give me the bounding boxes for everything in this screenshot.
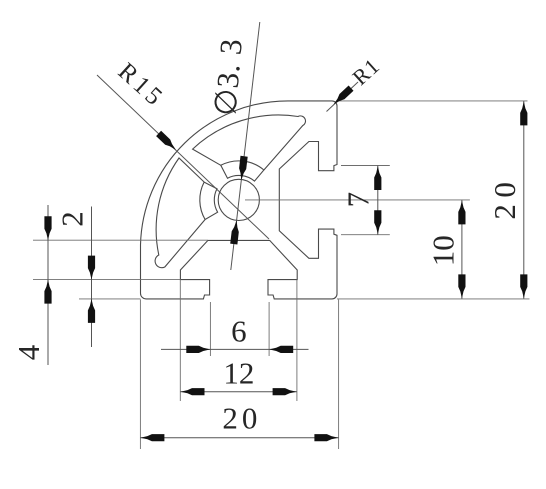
svg-text:2: 2: [55, 211, 90, 227]
svg-text:20: 20: [222, 400, 261, 435]
svg-text:7: 7: [341, 192, 376, 208]
svg-text:4: 4: [11, 344, 46, 360]
svg-text:10: 10: [425, 235, 460, 266]
svg-text:20: 20: [487, 176, 522, 220]
svg-text:6: 6: [231, 314, 247, 349]
svg-text:∅3. 3: ∅3. 3: [207, 37, 249, 117]
svg-text:12: 12: [223, 356, 254, 391]
